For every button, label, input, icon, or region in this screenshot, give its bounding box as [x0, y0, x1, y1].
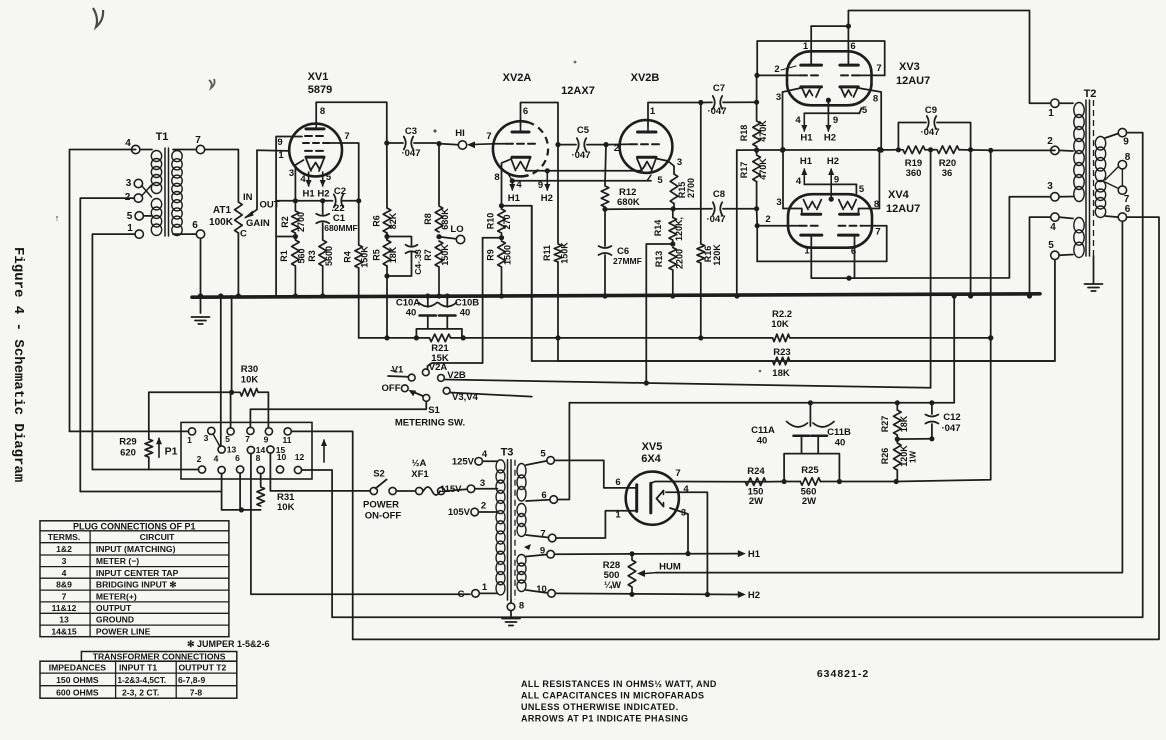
svg-text:6X4: 6X4 — [641, 453, 661, 465]
XV4 pin5 line — [804, 184, 865, 195]
capacitor C8 — [706, 189, 757, 225]
svg-text:5: 5 — [540, 449, 546, 460]
XV4 heater H2 arrow — [827, 156, 839, 199]
svg-text:R30: R30 — [241, 364, 258, 375]
XV3 grids dashes — [800, 74, 859, 76]
svg-text:H2: H2 — [748, 590, 760, 601]
svg-text:3: 3 — [480, 478, 485, 489]
P1 pin8 — [256, 453, 265, 474]
svg-text:8&9: 8&9 — [56, 579, 72, 589]
resistor R17 — [739, 150, 768, 182]
terminal T2-5 — [1048, 240, 1073, 260]
svg-text:120K: 120K — [712, 244, 722, 266]
transformer T2 core — [1086, 100, 1094, 256]
svg-text:4: 4 — [796, 176, 802, 187]
wire C8 line — [605, 208, 712, 211]
XV4 node center — [829, 197, 834, 202]
svg-text:H1: H1 — [508, 193, 521, 204]
svg-text:120K,: 120K, — [674, 217, 684, 241]
capacitor C3 — [387, 126, 436, 159]
wire T2 pin6 hum — [656, 221, 1122, 572]
svg-text:OFF: OFF — [382, 383, 401, 394]
tube XV2B label — [631, 72, 660, 84]
svg-text:120K: 120K — [899, 445, 909, 467]
svg-text:R5: R5 — [372, 249, 382, 261]
capacitor C4 bracket — [384, 237, 411, 279]
svg-text:OUTPUT: OUTPUT — [96, 603, 132, 613]
resistor R23 line — [532, 360, 1055, 362]
svg-text:600 OHMS: 600 OHMS — [56, 687, 99, 697]
T2 primary winding upper — [1074, 103, 1084, 202]
AT1 GAIN label — [246, 218, 270, 229]
arrow into XV2A grid — [467, 141, 493, 148]
svg-text:18K: 18K — [388, 246, 398, 263]
XV2A heater node H1 — [507, 172, 522, 204]
node R15 bottom — [671, 206, 676, 211]
node R10-R9 — [483, 235, 505, 240]
svg-text:ON-OFF: ON-OFF — [365, 511, 402, 522]
svg-text:11: 11 — [283, 435, 292, 445]
svg-text:18K: 18K — [772, 368, 790, 379]
svg-text:18K: 18K — [899, 415, 909, 432]
svg-text:·047: ·047 — [401, 148, 420, 159]
figure caption — [10, 247, 26, 482]
svg-text:5: 5 — [326, 172, 332, 183]
svg-text:2: 2 — [614, 143, 619, 154]
S1 OFF contact — [382, 383, 409, 394]
P1 label — [165, 446, 178, 458]
P1 pin11 — [283, 428, 292, 445]
XV2B grid dashes — [630, 143, 659, 145]
node C7 left — [698, 100, 703, 105]
svg-text:8: 8 — [494, 172, 499, 183]
svg-text:C9: C9 — [925, 105, 937, 116]
capacitor C11A — [751, 422, 809, 447]
transformer T1 core — [165, 148, 169, 236]
resistor R19 — [898, 146, 925, 179]
T2 primary winding lower — [1074, 218, 1084, 258]
svg-text:1: 1 — [650, 106, 656, 117]
wire C9R20 ground leg — [968, 150, 973, 299]
svg-text:R1: R1 — [279, 250, 289, 262]
svg-text:7: 7 — [875, 227, 880, 238]
svg-text:XV2A: XV2A — [503, 72, 532, 84]
svg-text:40: 40 — [757, 436, 768, 447]
svg-text:R24: R24 — [747, 466, 765, 477]
table TRANSFORMER title — [93, 652, 226, 662]
svg-text:BRIDGING INPUT ✻: BRIDGING INPUT ✻ — [96, 579, 177, 589]
svg-text:680K: 680K — [440, 208, 450, 230]
svg-text:AT1: AT1 — [213, 205, 232, 216]
wire T2 pin4 ground — [1027, 217, 1051, 299]
wire P1 pin15 to S2 — [270, 453, 369, 491]
svg-text:4: 4 — [214, 454, 219, 464]
wire R5 to B+ line — [384, 266, 389, 341]
table rows — [48, 532, 179, 636]
svg-text:UNLESS OTHERWISE INDICATED.: UNLESS OTHERWISE INDICATED. — [521, 702, 678, 712]
XV1 heater pin4 arrow — [300, 172, 311, 187]
capacitor C10A — [396, 293, 437, 318]
table TRANSFORMER box — [40, 661, 237, 698]
P1 pin12 — [294, 452, 304, 474]
XV2B pin3 lead — [656, 157, 682, 173]
terminal T3 105V — [448, 501, 498, 519]
resistor R27 — [880, 403, 909, 439]
svg-text:7: 7 — [245, 434, 250, 444]
tube XV1 label — [308, 71, 333, 96]
svg-text:150K: 150K — [360, 246, 370, 268]
node R10 top — [499, 203, 504, 208]
T3 polarity mark — [524, 544, 531, 550]
XV3 plate leads — [803, 26, 856, 65]
wire T1-7 to AT1 — [205, 150, 239, 202]
XV1 H2 label — [317, 189, 329, 200]
svg-text:XF1: XF1 — [411, 469, 429, 480]
svg-text:3: 3 — [776, 197, 781, 208]
smudge top-left — [93, 8, 103, 27]
transformer T1 label — [156, 131, 169, 143]
svg-text:470K: 470K — [758, 120, 768, 142]
wire pin11 branch down — [352, 431, 354, 639]
terminal T3 115V — [440, 478, 498, 495]
svg-text:H1: H1 — [748, 549, 761, 560]
svg-text:R13: R13 — [654, 251, 664, 268]
terminal T2-1 — [1048, 99, 1073, 119]
svg-text:1: 1 — [1048, 108, 1054, 119]
svg-text:40: 40 — [406, 308, 417, 319]
capacitor C11A stem — [801, 436, 803, 454]
XV2B plate — [638, 126, 657, 132]
svg-text:8: 8 — [519, 601, 524, 612]
svg-text:1&2: 1&2 — [56, 544, 72, 554]
terminal T2-3 — [1047, 181, 1073, 201]
H1 line — [554, 551, 737, 556]
XV3 pin8 bracket — [858, 88, 884, 153]
XV4 cathode tents — [804, 200, 857, 210]
svg-text:P1: P1 — [165, 446, 178, 458]
B+ line upper — [569, 400, 954, 405]
svg-text:9: 9 — [1123, 137, 1129, 148]
node R6-R5 — [384, 233, 389, 240]
svg-text:5879: 5879 — [308, 84, 332, 96]
transformer T1 secondary winding — [172, 151, 182, 236]
node R8-R7 LO — [436, 234, 455, 239]
XV5 cathode bar — [649, 483, 652, 513]
svg-text:C11B: C11B — [827, 427, 851, 438]
tube XV5 label — [641, 441, 662, 465]
resistor R23 — [772, 347, 790, 379]
XV2B cathode — [638, 156, 657, 159]
terminal T2-9 — [1105, 128, 1129, 147]
svg-text:2: 2 — [765, 214, 770, 225]
resistor R1 — [279, 237, 307, 299]
svg-text:LO: LO — [450, 224, 463, 235]
S1 wiper arm — [409, 390, 430, 401]
svg-text:11&12: 11&12 — [52, 603, 77, 613]
resistor R10 — [486, 206, 513, 238]
ground symbol under T1 pin 6 — [192, 317, 210, 324]
svg-text:2: 2 — [197, 454, 202, 464]
svg-text:27MMF: 27MMF — [613, 256, 642, 266]
resistor R28 hum pot — [603, 554, 636, 595]
svg-text:·047: ·047 — [706, 214, 725, 225]
table title — [73, 522, 196, 532]
svg-text:H2: H2 — [317, 189, 329, 200]
svg-text:R7: R7 — [423, 249, 433, 261]
svg-text:5: 5 — [127, 211, 133, 222]
terminal LO — [450, 224, 464, 244]
S1 contact V1 — [388, 365, 415, 382]
HUM label — [659, 562, 681, 573]
terminal T3-7 — [526, 529, 556, 542]
svg-text:6: 6 — [850, 41, 855, 52]
svg-text:13: 13 — [59, 615, 69, 625]
fuse XF1 — [397, 458, 445, 495]
switch S2 — [370, 469, 396, 495]
XV3 heater H1 arrow — [795, 113, 813, 143]
wire R31 bottom / pin6 — [222, 473, 261, 512]
svg-text:INPUT T1: INPUT T1 — [119, 662, 157, 672]
svg-text:R3: R3 — [307, 250, 317, 262]
svg-text:100K: 100K — [209, 217, 234, 228]
table TRANSFORMER title box — [81, 652, 236, 662]
resistor R20 — [935, 146, 959, 179]
terminal T2-8 — [1118, 152, 1131, 169]
svg-text:150K: 150K — [440, 244, 450, 266]
table TRANSFORMER rows — [49, 662, 227, 697]
svg-text:1: 1 — [127, 223, 133, 234]
wire B+ top to T2 pin1 — [848, 11, 1050, 104]
terminal T2-6 — [1105, 204, 1131, 221]
transformer T3 core — [508, 460, 516, 600]
connector P1 box — [181, 422, 312, 479]
P1 pin6 — [235, 453, 244, 473]
XV3 cathode tents — [802, 88, 858, 97]
svg-text:METER (−): METER (−) — [96, 556, 139, 566]
capacitor C7 — [701, 83, 757, 117]
svg-text:ALL RESISTANCES IN OHMS½ WATT,: ALL RESISTANCES IN OHMS½ WATT, AND — [521, 679, 717, 689]
svg-text:2: 2 — [1047, 136, 1053, 147]
svg-text:TERMS.: TERMS. — [48, 532, 80, 542]
T2 core ground — [1085, 256, 1103, 291]
svg-text:2: 2 — [774, 64, 779, 75]
wire P1 pin4 center tap — [80, 474, 221, 510]
svg-text:H1: H1 — [800, 156, 813, 167]
node pin2-R22 — [988, 335, 993, 340]
svg-text:HI: HI — [455, 128, 465, 139]
svg-text:6: 6 — [615, 477, 620, 488]
svg-text:3: 3 — [681, 508, 686, 519]
svg-text:POWER LINE: POWER LINE — [96, 626, 151, 636]
XV2A pin8 lead — [494, 160, 510, 206]
P1 phasing arrow right — [321, 439, 327, 462]
svg-text:4: 4 — [125, 138, 131, 149]
P1 pin1 — [187, 428, 195, 445]
XV5 cathode arrow — [657, 491, 664, 507]
wire P1 pin1 input — [70, 430, 189, 432]
XV2A heater node H2 — [526, 168, 553, 204]
XV4 pin7 lead — [862, 226, 887, 238]
svg-text:✻ JUMPER 1-5&2-6: ✻ JUMPER 1-5&2-6 — [187, 639, 270, 649]
tube XV2A label — [503, 72, 532, 84]
svg-text:4: 4 — [683, 484, 689, 495]
svg-text:·047: ·047 — [707, 106, 726, 117]
svg-text:6: 6 — [235, 453, 240, 463]
P1 pin5 — [225, 428, 234, 444]
XV1 plate — [306, 123, 324, 129]
svg-text:7: 7 — [344, 131, 349, 142]
wire T2 pin6 output — [353, 217, 1159, 639]
svg-text:8: 8 — [874, 199, 879, 210]
svg-text:R8: R8 — [423, 213, 433, 225]
wire R30 right to pin9 — [258, 392, 268, 428]
svg-text:560: 560 — [297, 248, 307, 263]
svg-text:CIRCUIT: CIRCUIT — [140, 532, 176, 542]
svg-text:Figure 4 - Schematic Diagram: Figure 4 - Schematic Diagram — [10, 247, 26, 482]
wire T2 pin5 drop — [558, 260, 1055, 362]
capacitor C6 — [599, 209, 642, 298]
resistor R11 — [542, 145, 570, 264]
svg-text:105V: 105V — [448, 507, 471, 518]
input phase mark — [55, 213, 60, 223]
svg-text:ALL CAPACITANCES IN MICROFARAD: ALL CAPACITANCES IN MICROFARADS — [521, 691, 704, 701]
smudge dot — [433, 61, 761, 373]
XV4 plates — [801, 235, 858, 257]
svg-text:5: 5 — [657, 175, 663, 186]
T3 primary winding — [496, 460, 505, 595]
jumper note — [187, 639, 270, 649]
node C9 right — [959, 147, 993, 153]
svg-text:3: 3 — [204, 433, 209, 443]
node XV3 grids — [754, 73, 759, 78]
tube XV2B envelope — [620, 120, 673, 173]
node R14-R13 — [646, 241, 675, 383]
svg-text:R17: R17 — [739, 162, 749, 179]
svg-text:14&15: 14&15 — [51, 626, 77, 636]
wire T1-4 left drop — [70, 150, 136, 432]
resistor R22 — [771, 309, 792, 342]
svg-text:5: 5 — [225, 434, 230, 444]
wire T1-1 left drop — [92, 234, 135, 469]
svg-text:4: 4 — [1050, 222, 1056, 233]
P1 pin10 — [276, 452, 286, 473]
capacitor C9 — [898, 105, 970, 150]
P1 pin3 — [204, 427, 215, 443]
svg-text:36: 36 — [942, 168, 953, 179]
svg-text:OUTPUT T2: OUTPUT T2 — [179, 662, 227, 672]
svg-text:12AU7: 12AU7 — [896, 75, 930, 87]
wire T3-7 to XV5 pin1 — [556, 510, 637, 539]
svg-text:2W: 2W — [749, 496, 763, 507]
H2 line — [555, 592, 738, 597]
svg-text:·047: ·047 — [920, 127, 939, 138]
wire S1 to P1 pin7 — [250, 402, 426, 428]
node R12 bottom — [602, 207, 607, 212]
XV4 grid bracket bottom — [757, 226, 887, 262]
svg-text:40: 40 — [460, 308, 471, 319]
capacitor C10B — [438, 293, 479, 318]
svg-text:R25: R25 — [801, 465, 819, 476]
svg-text:680K: 680K — [617, 197, 640, 208]
XV1 grids — [303, 136, 329, 151]
wire heater line to XV2B pin5 — [512, 175, 663, 186]
svg-text:8: 8 — [1125, 152, 1131, 163]
wire R17 to C8 node — [754, 182, 759, 212]
svg-text:12: 12 — [295, 452, 305, 462]
tube XV4 label — [886, 189, 920, 215]
svg-text:R29: R29 — [119, 437, 136, 448]
XV2B pin2 lead — [606, 143, 630, 154]
resistor R31 — [257, 474, 295, 513]
wire P1 pin2 input — [92, 469, 198, 471]
svg-text:H2: H2 — [541, 193, 553, 204]
XV1 cathode — [306, 156, 324, 159]
capacitor C1 — [316, 201, 358, 239]
terminal T2-4 — [1050, 213, 1073, 233]
H2 arrow label — [738, 590, 760, 601]
terminal T1-2 — [125, 192, 143, 203]
H1 arrow label — [738, 549, 761, 560]
terminal T2-2 — [1047, 136, 1073, 155]
svg-text:C3: C3 — [405, 126, 417, 137]
wire cathode line ground leg — [734, 150, 739, 299]
terminal T1-5 — [127, 211, 152, 222]
svg-text:3: 3 — [62, 556, 67, 566]
svg-text:1500: 1500 — [503, 245, 513, 265]
wire R4 to B+ line — [358, 268, 360, 338]
P1 pin7 — [245, 427, 254, 444]
svg-text:METER(+): METER(+) — [96, 591, 137, 601]
tube XV5 envelope — [626, 472, 679, 525]
node R2-R1 — [276, 234, 298, 239]
wire R30jct to pin5 — [230, 392, 232, 428]
svg-text:5: 5 — [862, 105, 868, 116]
capacitor C4 — [406, 245, 424, 275]
C11 top stem — [809, 403, 811, 426]
XV4 pin3 bracket — [776, 147, 801, 214]
T3 secondary winding 5-6 — [517, 464, 526, 502]
tube 12AX7 label — [561, 85, 595, 97]
AT1 C label — [240, 229, 247, 240]
wire B+ line to ground corner — [952, 293, 957, 402]
svg-text:1W: 1W — [909, 451, 918, 463]
svg-text:10K: 10K — [771, 319, 789, 330]
resistor R8 — [423, 144, 450, 232]
XV3 pin5 line — [804, 98, 868, 116]
svg-text:R2: R2 — [280, 216, 290, 228]
svg-text:H2: H2 — [824, 133, 836, 144]
svg-text:2W: 2W — [802, 496, 816, 507]
svg-text:12AX7: 12AX7 — [561, 85, 595, 97]
cathode line — [737, 148, 899, 153]
P1 pin13 — [218, 445, 236, 455]
svg-text:2: 2 — [481, 501, 486, 512]
tube XV3 label — [896, 61, 930, 87]
ground bus — [192, 294, 1040, 297]
svg-text:9: 9 — [277, 137, 282, 148]
S2 power label — [363, 500, 401, 522]
T2 secondary winding upper — [1095, 137, 1105, 182]
svg-text:125V: 125V — [452, 457, 475, 468]
T3 secondary winding 9-10 — [517, 555, 526, 592]
svg-text:T2: T2 — [1084, 88, 1097, 100]
XV2A cathode — [512, 156, 530, 159]
T1 crossover wires — [142, 185, 152, 197]
svg-text:IN: IN — [243, 192, 253, 203]
svg-text:C: C — [458, 589, 465, 600]
svg-text:6: 6 — [192, 220, 198, 231]
svg-text:INPUT (MATCHING): INPUT (MATCHING) — [96, 544, 176, 554]
